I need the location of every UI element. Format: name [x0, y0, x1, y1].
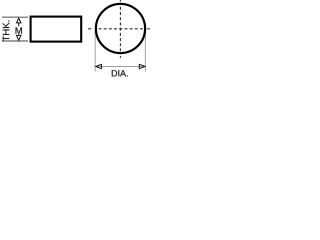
- vertical centerline bottom outer dash: [119, 56, 121, 58]
- label THK. rotated: [3, 21, 10, 42]
- extension line top (THK): [2, 16, 28, 18]
- label M (thickness value): [16, 27, 22, 34]
- horizontal centerline left outer dash: [88, 28, 91, 30]
- front view circle: [96, 4, 145, 53]
- extension line right (DIA): [144, 30, 146, 72]
- DIA arrow left: [96, 64, 102, 68]
- label DIA.: [112, 70, 128, 76]
- THK dimension arrow down: [17, 34, 21, 40]
- DIA dimension line: [97, 66, 144, 68]
- THK dimension arrow up: [17, 18, 21, 26]
- vertical centerline top outer dash: [119, 0, 121, 2]
- extension line bottom (THK): [2, 40, 28, 42]
- DIA arrow right: [139, 64, 145, 68]
- vertical centerline inner dashes: [119, 7, 121, 51]
- horizontal centerline inner dashes: [98, 28, 143, 30]
- extension line left (DIA): [94, 30, 96, 72]
- horizontal centerline right outer dash: [147, 28, 150, 30]
- side view rectangle: [31, 17, 82, 42]
